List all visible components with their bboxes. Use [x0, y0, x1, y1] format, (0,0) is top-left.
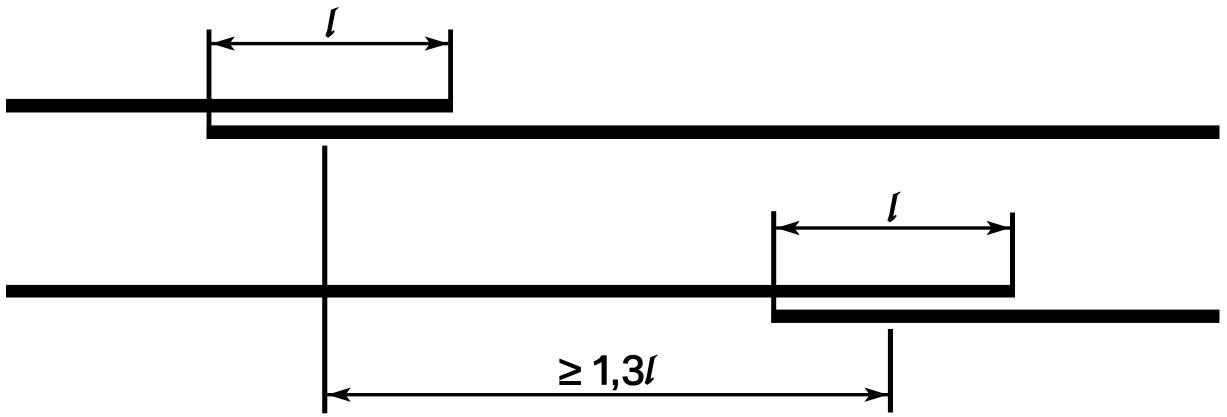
arrowhead right (bottom dimension): [864, 388, 888, 402]
label l (top dimension): [326, 7, 339, 37]
extension line right of bottom-right dimension: [1010, 213, 1015, 298]
arrowhead left (top dimension): [211, 36, 235, 50]
rebar bar B1 (top splice, upper bar): [6, 99, 453, 113]
extension line right of top dimension: [448, 30, 453, 113]
svg-text:≥: ≥: [559, 347, 582, 394]
arrowhead left (bottom dimension): [327, 388, 351, 402]
dimension line >= 1,3 l (bottom): [327, 393, 888, 396]
extension line left of top dimension: [207, 30, 212, 140]
stagger axis vertical line right: [888, 329, 893, 413]
dimension line l (bottom right): [776, 226, 1010, 229]
svg-text:,: ,: [610, 347, 622, 394]
rebar bar B4 (bottom splice, lower bar): [771, 310, 1219, 323]
label l (bottom dimension, italic serif): [645, 355, 658, 385]
arrowhead left (right l dimension): [776, 221, 800, 235]
dimension line l (top): [211, 42, 448, 45]
rebar bar B2 (top splice, lower bar): [207, 125, 1220, 139]
extension line left of bottom-right dimension: [771, 211, 776, 323]
rebar bar B3 (bottom splice, upper bar): [6, 285, 1015, 298]
label l (right dimension): [888, 192, 901, 222]
arrowhead right (top dimension): [425, 36, 449, 50]
label digit 1 (bottom dimension): [594, 356, 607, 385]
arrowhead right (right l dimension): [987, 221, 1011, 235]
stagger axis vertical line left: [322, 146, 327, 414]
svg-text:3: 3: [622, 347, 645, 394]
